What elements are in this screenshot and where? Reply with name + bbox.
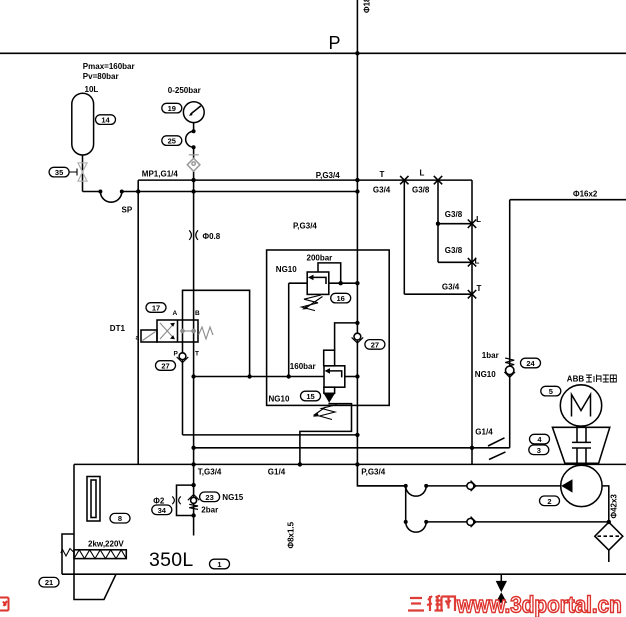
wire 160bar drain staircase to tank [300,403,352,465]
svg-text:0-250bar: 0-250bar [168,86,201,95]
svg-text:NG10: NG10 [475,370,496,379]
svg-text:G3/8: G3/8 [445,246,463,255]
wire plug stub L G3/8 vertical [437,180,439,262]
balloon 35 [49,167,69,177]
node dot stub tee [436,222,440,226]
motor 5 circle [560,385,601,426]
wire 160bar pilot riser [335,323,358,350]
svg-text:27: 27 [371,340,379,349]
node dot assembly bottom [191,513,195,517]
solenoid valve DT1 arrowheads [170,323,175,340]
heater pocket outline [62,534,74,574]
svg-text:G3/4: G3/4 [442,283,460,292]
accumulator 14 capsule [72,93,94,155]
svg-text:Φ2: Φ2 [153,497,165,506]
svg-text:1: 1 [217,560,221,569]
svg-text:2bar: 2bar [201,506,218,515]
wire DT1 A port jumper up and over [183,290,250,376]
watermark partial glyph bottom left [0,598,9,611]
node dot main vertical on MP1 [355,178,359,182]
node SP hose end dots [98,190,123,194]
solenoid valve DT1 through lines [183,320,194,342]
wire pump right port to filter [602,486,609,522]
svg-text:160bar: 160bar [290,362,316,371]
svg-text:Φ0.8: Φ0.8 [203,232,221,241]
svg-text:G1/4: G1/4 [475,427,493,436]
svg-text:34: 34 [158,506,167,515]
glyphs ABB chinese motor type [586,375,616,383]
node dot filter top junction [607,520,611,524]
labels group [83,0,619,571]
svg-text:DT1: DT1 [110,324,126,333]
balloon 14 [96,115,116,125]
coupling gray test diamond on gauge line [187,158,200,171]
svg-text:L: L [475,257,480,266]
motor 5 letter M [572,395,591,417]
relief valve 15 drain box and triangle [324,387,335,403]
coupling check lower line [467,517,476,528]
svg-text:350L: 350L [149,549,194,571]
balloon 24 [521,358,541,368]
svg-text:a: a [136,335,140,342]
wire tank bottom line [62,573,626,575]
node dot 200bar outlet at main vertical [355,281,359,285]
hose SP flexible arc [100,192,121,203]
relief valve 15 160bar body [324,366,345,387]
node dot A jumper at drain header [247,374,251,378]
block NG10 manifold rectangle [267,250,390,405]
svg-text:8: 8 [118,514,122,523]
wire pump riser to P node [357,464,405,486]
svg-text:NG10: NG10 [276,265,297,274]
svg-text:16: 16 [337,294,345,303]
wire gauge line to MP1 [193,147,195,180]
plug cross X lower L [468,258,476,266]
balloon 19 [162,103,182,113]
svg-text:P,G3/4: P,G3/4 [316,171,340,180]
balloon 1 [210,559,230,569]
node dot drain drop at tank top [298,462,302,466]
node dot 200bar pilot tee [339,281,343,285]
solenoid valve DT1 coil [141,330,157,342]
relief valve 15 spring and adjust arrow [313,405,337,420]
plug cross X bottom T [468,290,476,298]
wire main pressure vertical P line [356,0,358,464]
node dot assembly top [191,483,195,487]
balloon 4 [530,434,550,444]
relief valve 16 200bar body [307,272,329,294]
svg-text:2kw,220V: 2kw,220V [88,540,124,549]
hose gauge flexible arc [186,131,194,147]
svg-text:T: T [195,351,199,358]
plug cross X at T G3/4 [400,176,408,184]
relief valve 16 spring and adjust arrow [302,295,323,311]
svg-text:Φ8x1.5: Φ8x1.5 [287,521,296,548]
svg-text:G3/8: G3/8 [445,210,463,219]
pump 2 circle [561,465,602,506]
coupling 3 shaft and bars [572,427,591,466]
svg-text:Φ18: Φ18 [363,0,372,13]
balloon 16 [331,293,351,303]
svg-text:G1/4: G1/4 [268,468,286,477]
svg-text:ABB: ABB [567,375,585,384]
bell housing 4 trapezoid [552,427,609,463]
balloon 27 at DT1 [156,361,176,371]
svg-text:3: 3 [537,446,541,455]
svg-text:P: P [174,351,179,358]
coupling tick gray above diamond [189,154,199,156]
node dot gauge line on MP1 [191,178,195,182]
heater element 21 zigzag [74,550,126,559]
wire DT1 T line down to tank [193,342,195,464]
wire lower suction line to filter [426,521,609,523]
balloon 23 [200,492,220,502]
balloon 5 [541,386,561,396]
node hose dots lower [404,520,429,524]
svg-text:15: 15 [306,392,314,401]
node dot 160bar outlet at main vertical [355,374,359,378]
wire leak oil header horizontal [194,447,510,449]
svg-text:Pmax=160bar: Pmax=160bar [83,62,135,71]
check valve 23 2bar spring [189,504,198,509]
balloon 17 [146,303,166,313]
wire assembly tail stub [193,516,195,536]
svg-text:Φ42x3: Φ42x3 [610,494,619,519]
wire 200bar drain drop vertical [288,283,290,376]
wire 160bar outlet to main vertical [345,376,358,378]
balloon 21 [39,577,59,587]
balloon 25 [162,136,182,146]
drain valve hourglass stub [500,574,502,581]
svg-text:23: 23 [205,493,213,502]
shutoff valve 35 gray bowtie [78,163,87,181]
pointer tick balloon 35 [69,169,77,176]
node dot main vertical at tank top [355,462,359,466]
test coupling 27 on main vertical [352,333,364,343]
svg-text:G3/4: G3/4 [373,186,391,195]
wire SP line right part [122,191,358,193]
gauge 19 needle [189,106,201,116]
drain slash marks near G1/4 [488,438,506,460]
wire gauge stem below gauge [193,123,195,132]
svg-text:P: P [329,33,341,53]
wire 200bar inlet horizontal [289,282,308,284]
balloon 3 [529,445,549,455]
balloon 27 at main vertical [365,340,385,350]
node dot T line at tank top [191,462,195,466]
wire 200bar outlet to main vertical [329,282,358,284]
watermark red 3dportal [408,596,455,612]
check valve 23 2bar line [193,485,195,515]
wire plug column vertical right [471,180,473,464]
node dot leak header at plug column [470,446,474,450]
check valve 24 1bar ball and seat [504,366,515,377]
node dot T line at leak header [191,446,195,450]
wire filter bottom stub [608,550,610,562]
node dot SP line at block edge [136,189,140,193]
test coupling 27 on DT1 P line [177,353,189,363]
node dot SP line at main vertical [355,189,359,193]
orifice 0.8mm symbol [189,230,198,240]
svg-text:L: L [420,169,425,178]
hose pump line arc upper [406,486,427,496]
balloon 15 [301,391,321,401]
svg-text:B: B [195,310,200,317]
labels DT1 ports [136,310,201,358]
wire phi16x2 line to motor circuit [510,199,626,201]
balloon 2 [540,496,560,506]
svg-text:NG10: NG10 [269,395,290,404]
orifice phi2 symbol [172,496,181,504]
svg-text:10L: 10L [85,85,99,94]
wire stub G3/8 lower horizontal [438,261,472,263]
balloon 8 [110,513,130,523]
wire MP1 header horizontal [138,179,472,181]
balloons group [39,103,561,587]
plug cross X upper L [468,220,476,228]
svg-text:L: L [476,215,481,224]
svg-text:24: 24 [526,359,535,368]
svg-text:1bar: 1bar [482,351,499,360]
wire 200bar pilot loop [318,263,341,283]
check valve 23 2bar seat and ball [188,495,199,504]
node gauge hose dots [192,129,196,149]
svg-text:P,G3/4: P,G3/4 [361,468,385,477]
svg-text:G3/8: G3/8 [412,186,430,195]
drain valve hourglass triangles [496,581,507,603]
node dot T line at drain header [191,374,195,378]
svg-text:A: A [173,310,178,317]
breather assembly riser from tank top [193,464,195,485]
svg-text:NG15: NG15 [222,493,243,502]
wire top P bus horizontal [0,52,626,54]
node dot drain header at 200bar drain [287,374,291,378]
solenoid valve DT1 body [157,320,198,342]
wire SP accumulator line left part [83,191,101,193]
wire DT1 P port down through check [182,342,184,435]
solenoid valve DT1 spring right [199,327,214,339]
svg-text:2: 2 [547,497,551,506]
wire stub G3/4 bottom horizontal [404,293,472,295]
level gauge 8 inner [91,480,96,518]
svg-text:T,G3/4: T,G3/4 [198,468,222,477]
svg-text:Pv=80bar: Pv=80bar [83,72,119,81]
level gauge 8 outer [87,477,100,522]
svg-text:200bar: 200bar [307,253,333,262]
svg-text:5: 5 [549,387,553,396]
solenoid valve DT1 crossed arrows left cell [160,323,175,339]
wire return drop vertical 1bar line [509,200,511,448]
gauge 19 circle [183,102,204,123]
node dot P check line at main vertical [355,433,359,437]
svg-text:35: 35 [55,168,63,177]
wire pump outlet horizontal left segment [357,485,405,487]
wire bypass loop with orifice phi2 [177,485,194,515]
tank outline left and sump [74,464,116,599]
relief valve 15 pilot box [324,350,335,366]
svg-text:27: 27 [161,362,169,371]
svg-text:T: T [477,284,482,293]
wire gauge pressure tap down to DT1 B port [193,180,195,320]
check valve 24 1bar spring [505,358,514,366]
wire branch vertical between hoses [405,486,407,522]
plug cross X at L G3/8 [434,176,442,184]
svg-text:17: 17 [152,304,160,313]
node dot 160bar pilot at main vertical [355,321,359,325]
pump 2 flow triangle [561,479,572,492]
wire tank top line [74,463,626,465]
wire stub G3/8 upper horizontal [438,223,472,225]
svg-text:www.3dportal.cn: www.3dportal.cn [456,591,622,617]
balloon 34 [152,505,172,515]
wire block left edge vertical [137,180,139,464]
svg-text:T: T [380,170,385,179]
heater resistor squiggle [61,549,74,557]
wire drain header left segment [194,376,324,378]
svg-text:19: 19 [168,104,176,113]
svg-text:21: 21 [45,578,53,587]
coupling check upper line [467,481,476,492]
svg-text:25: 25 [168,137,176,146]
svg-text:P,G3/4: P,G3/4 [293,221,317,230]
svg-text:MP1,G1/4: MP1,G1/4 [142,169,179,178]
wire P check outlet horizontal to main vertical [183,434,358,436]
node dot SP line at gauge line [191,189,195,193]
hose pump line arc lower [406,522,427,532]
svg-text:Φ16x2: Φ16x2 [573,190,598,199]
solenoid valve DT1 right cell dots and bar [181,329,196,333]
node hose dots upper [404,484,429,488]
node P junction dot on top bus [355,51,359,55]
wire plug stub T G3/4 vertical [403,180,405,294]
wire accumulator drop line [82,155,84,192]
filter suction strainer diamond [595,522,623,550]
wire pump outlet to pump [426,485,561,487]
svg-text:14: 14 [101,116,110,125]
svg-text:SP: SP [122,206,133,215]
